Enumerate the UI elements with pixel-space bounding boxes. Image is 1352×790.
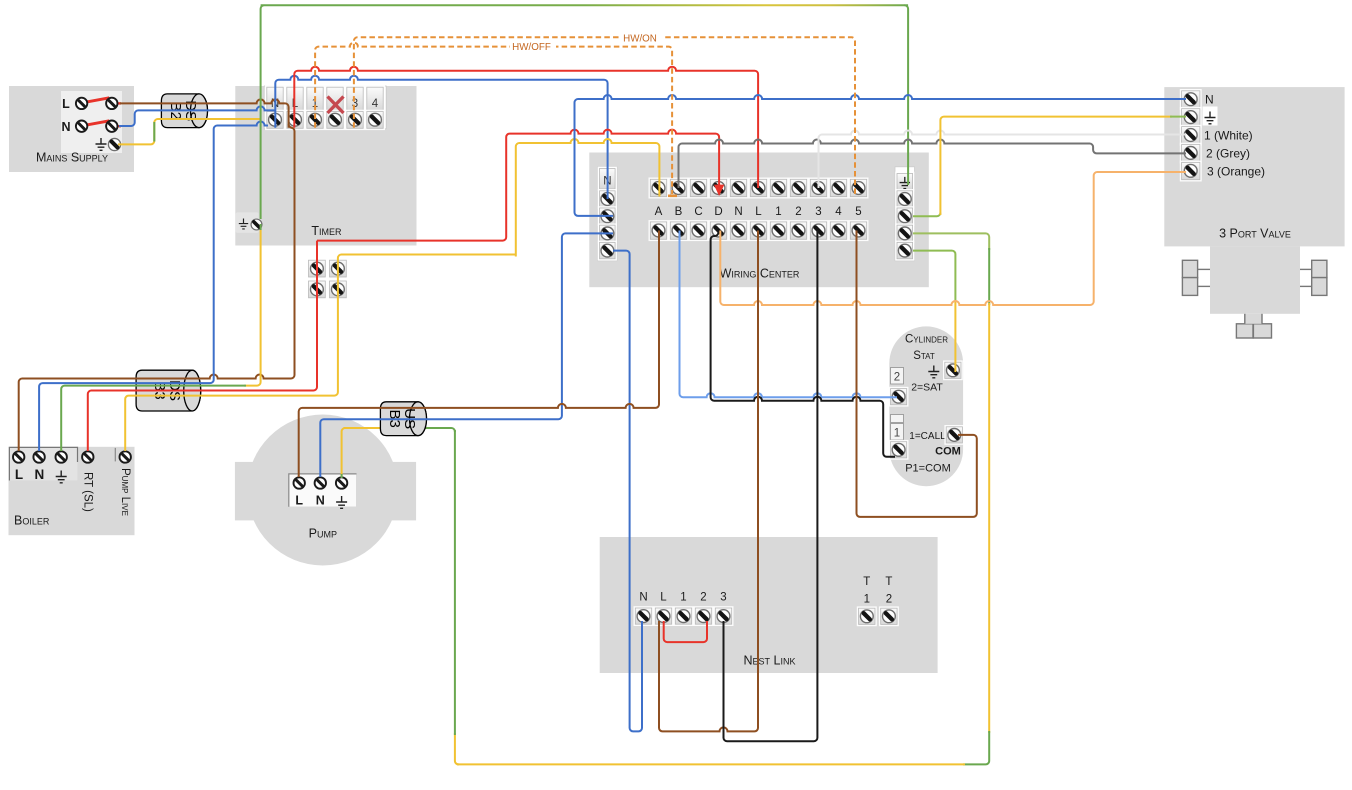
svg-text:HW/OFF: HW/OFF: [512, 42, 551, 53]
svg-text:Pump: Pump: [309, 527, 337, 541]
svg-text:3: 3: [815, 206, 821, 218]
svg-text:N: N: [734, 206, 742, 218]
svg-text:4: 4: [835, 206, 842, 218]
svg-text:1 (White): 1 (White): [1204, 129, 1253, 143]
svg-text:2=SAT: 2=SAT: [911, 382, 943, 394]
svg-text:D: D: [714, 206, 722, 218]
svg-text:3: 3: [720, 592, 726, 604]
svg-text:1: 1: [775, 206, 781, 218]
svg-text:2: 2: [894, 372, 900, 384]
svg-text:COM: COM: [935, 446, 961, 458]
svg-text:1: 1: [894, 428, 900, 440]
svg-text:C: C: [694, 206, 702, 218]
svg-text:L: L: [15, 467, 23, 482]
svg-text:B: B: [675, 206, 683, 218]
svg-text:1: 1: [864, 594, 870, 606]
svg-text:2: 2: [886, 594, 892, 606]
svg-text:RT (SL): RT (SL): [82, 472, 94, 512]
svg-text:N: N: [316, 494, 325, 508]
svg-text:L: L: [660, 592, 667, 604]
svg-text:Nest Link: Nest Link: [744, 654, 796, 668]
svg-text:3 Port Valve: 3 Port Valve: [1219, 227, 1291, 241]
svg-text:N: N: [61, 120, 70, 134]
svg-text:T: T: [885, 576, 892, 588]
svg-text:A: A: [655, 206, 663, 218]
svg-text:5: 5: [855, 206, 861, 218]
svg-text:Timer: Timer: [311, 224, 342, 238]
svg-text:N: N: [1205, 93, 1214, 107]
svg-text:L: L: [295, 494, 303, 508]
svg-text:P1=COM: P1=COM: [905, 463, 951, 475]
svg-text:N: N: [35, 467, 45, 482]
svg-text:3: 3: [352, 98, 358, 110]
svg-text:Wiring Center: Wiring Center: [720, 267, 800, 281]
svg-text:T: T: [863, 576, 870, 588]
svg-text:L: L: [755, 206, 762, 218]
svg-text:Pump Live: Pump Live: [119, 468, 131, 516]
svg-text:L: L: [62, 97, 70, 111]
svg-text:2: 2: [795, 206, 801, 218]
svg-text:1: 1: [680, 592, 686, 604]
svg-text:Mains Supply: Mains Supply: [36, 151, 108, 165]
svg-text:3 (Orange): 3 (Orange): [1207, 165, 1265, 179]
svg-text:1=CALL: 1=CALL: [909, 431, 946, 442]
svg-text:2 (Grey): 2 (Grey): [1206, 147, 1250, 161]
svg-text:Cylinder: Cylinder: [905, 334, 948, 346]
svg-text:4: 4: [372, 98, 379, 110]
svg-text:Boiler: Boiler: [14, 514, 50, 528]
svg-text:N: N: [639, 592, 647, 604]
svg-text:HW/ON: HW/ON: [623, 33, 657, 44]
svg-text:Stat: Stat: [913, 350, 935, 362]
svg-text:2: 2: [700, 592, 706, 604]
